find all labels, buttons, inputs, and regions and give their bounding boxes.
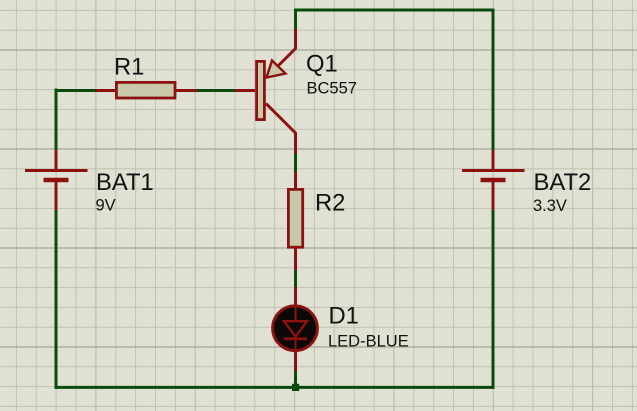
LED D1 cathode bar bbox=[284, 337, 307, 340]
wire top rail to Q1 emitter bbox=[294, 9, 297, 31]
battery BAT1 negative plate bbox=[44, 178, 69, 183]
transistor Q1 emitter lead bbox=[278, 29, 296, 67]
battery BAT1 positive plate bbox=[25, 169, 88, 172]
wire R2 to D1 bbox=[294, 270, 297, 289]
battery BAT1 bottom pin bbox=[55, 180, 58, 210]
wire top rail bbox=[295, 9, 495, 12]
svg-text:BC557: BC557 bbox=[307, 80, 357, 98]
battery BAT2 negative plate bbox=[481, 178, 506, 183]
resistor R2 top pin bbox=[294, 172, 297, 189]
svg-text:BAT1: BAT1 bbox=[96, 169, 154, 196]
LED D1 internal cathode line bbox=[294, 338, 296, 352]
resistor R1 left pin bbox=[96, 89, 116, 92]
wire right vertical upper bbox=[492, 9, 495, 152]
wire D1 to bottom rail bbox=[294, 370, 297, 388]
svg-text:3.3V: 3.3V bbox=[533, 197, 567, 215]
wire bottom rail bbox=[55, 386, 495, 389]
LED D1 triangle bbox=[284, 321, 307, 336]
transistor Q1 base pin bbox=[235, 89, 255, 92]
svg-text:D1: D1 bbox=[329, 303, 359, 330]
wire left vertical lower bbox=[55, 209, 58, 389]
svg-text:BAT2: BAT2 bbox=[534, 169, 592, 196]
svg-text:R1: R1 bbox=[114, 54, 144, 81]
transistor Q1 collector lead bbox=[266, 104, 296, 154]
wire right vertical lower bbox=[492, 210, 495, 389]
battery BAT2 top pin bbox=[492, 150, 495, 170]
transistor Q1 emitter arrowhead bbox=[267, 61, 286, 78]
junction node at bottom rail bbox=[292, 384, 299, 391]
resistor R1 body bbox=[116, 82, 175, 98]
LED D1 internal anode line bbox=[294, 306, 296, 321]
battery BAT1 top pin bbox=[55, 150, 58, 170]
svg-text:LED-BLUE: LED-BLUE bbox=[328, 333, 409, 351]
svg-text:R2: R2 bbox=[315, 190, 345, 217]
LED D1 anode pin bbox=[294, 287, 297, 306]
svg-text:Q1: Q1 bbox=[306, 51, 338, 78]
wire left to R1 bbox=[56, 89, 97, 92]
resistor R2 bottom pin bbox=[294, 247, 297, 271]
svg-text:9V: 9V bbox=[96, 197, 116, 215]
LED D1 cathode pin bbox=[294, 351, 297, 371]
wire R1 to Q1 base bbox=[196, 89, 235, 92]
battery BAT2 bottom pin bbox=[492, 180, 495, 210]
transistor Q1 base bar bbox=[257, 61, 265, 119]
wire Q1 collector to R2 bbox=[294, 153, 297, 174]
resistor R2 body bbox=[288, 189, 302, 247]
wire left vertical upper bbox=[55, 89, 58, 152]
battery BAT2 positive plate bbox=[462, 169, 525, 172]
LED D1 body circle bbox=[273, 306, 318, 351]
resistor R1 right pin bbox=[175, 89, 197, 92]
